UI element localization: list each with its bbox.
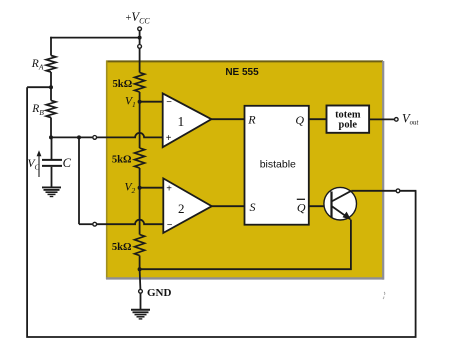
junction trigger branch [77, 135, 81, 139]
wire V2 to comparator2 + input [140, 187, 164, 189]
wire discharge node to right rail [400, 190, 416, 192]
wire capacitor bottom lead [51, 167, 53, 187]
svg-text:NE 555: NE 555 [225, 67, 259, 78]
wire collector to discharge node [351, 190, 395, 192]
resistor 5k (bottom) [135, 235, 145, 256]
svg-text:5kΩ: 5kΩ [112, 155, 132, 166]
resistor RA [46, 56, 56, 73]
svg-text:5kΩ: 5kΩ [112, 242, 132, 253]
svg-text:R: R [247, 113, 256, 127]
bistable block [245, 106, 309, 225]
wire top horizontal (VCC rail to RA) [50, 37, 139, 39]
wire divider to V2 [139, 168, 141, 235]
IC body NE555 (yellow box) [106, 61, 384, 280]
wire Q to totem pole [309, 118, 327, 120]
pin 8 (open circle at box entry) [138, 45, 142, 49]
wire Qbar to transistor base [309, 205, 332, 207]
svg-text:5kΩ: 5kΩ [113, 79, 133, 90]
svg-text:S: S [250, 200, 256, 214]
node Vout (open circle) [395, 118, 399, 122]
junction V2 [138, 186, 142, 190]
svg-text:−: − [167, 220, 173, 231]
svg-text:pole: pole [339, 120, 358, 131]
junction RA/RB (discharge node) [49, 85, 53, 89]
wire trigger branch vertical [78, 137, 80, 224]
svg-text:+: + [166, 184, 172, 195]
svg-text:Q: Q [295, 113, 304, 127]
label VC with arrow [28, 150, 42, 177]
op-amp comparator 1 [163, 93, 212, 147]
wire RA column top [50, 37, 52, 56]
resistor 5k (middle) [135, 148, 145, 168]
wire VCC into divider [139, 49, 141, 73]
wire V1 to comparator1 - input [140, 101, 163, 103]
svg-text:+: + [166, 133, 172, 144]
wire threshold horizontal to pin 6 [51, 136, 92, 138]
wire capacitor top lead [51, 137, 53, 159]
wire RB top [50, 87, 52, 100]
scan artifact mark [383, 292, 385, 299]
junction threshold node [49, 135, 53, 139]
ground (main GND symbol) [131, 310, 150, 319]
svg-text:−: − [166, 97, 172, 108]
capacitor C [42, 160, 62, 166]
svg-text:Q: Q [297, 200, 306, 214]
wire pin6 to comparator1 + input (with hop over divider) [97, 133, 163, 138]
wire discharge node to left rail [27, 86, 51, 88]
svg-text:1: 1 [178, 114, 185, 129]
junction VCC rail [138, 36, 142, 40]
wire comparator2 output to S [212, 205, 245, 207]
wire trigger horizontal to pin 2 [79, 223, 92, 225]
wire RB bottom [50, 118, 52, 138]
junction V1 [138, 100, 142, 104]
node discharge (open circle) [396, 189, 400, 193]
junction internal ground [138, 267, 142, 271]
transistor Q1 (discharge) [324, 187, 357, 220]
wire VCC stub [139, 31, 141, 44]
pin 1 GND (open circle) [139, 289, 143, 293]
wire totem pole to Vout [369, 118, 394, 120]
wire GND lead [140, 294, 142, 310]
resistor 5k (top) [135, 73, 145, 93]
op-amp comparator 2 [163, 178, 212, 233]
resistor RB [46, 101, 56, 118]
svg-text:2: 2 [178, 201, 185, 216]
totem pole block [327, 106, 370, 133]
wire divider to V1 [139, 92, 141, 148]
svg-text:GND: GND [147, 287, 172, 299]
ground (below capacitor) [42, 187, 61, 196]
pin 2 trigger (open circle) [93, 222, 97, 226]
wire internal ground rail [140, 220, 351, 270]
node +VCC terminal (open circle) [138, 27, 142, 31]
wire pin2 to comparator2 - input (with hop over divider) [97, 220, 163, 224]
svg-text:bistable: bistable [260, 159, 296, 171]
wire divider bottom to ground node [139, 256, 141, 270]
wire comparator1 output to R [211, 118, 244, 120]
pin 6 threshold (open circle) [93, 136, 97, 140]
wire ground pin vertical [139, 269, 142, 289]
wire RA to junction [50, 72, 52, 87]
wire right feedback rail [27, 87, 416, 337]
svg-text:C: C [63, 156, 72, 170]
